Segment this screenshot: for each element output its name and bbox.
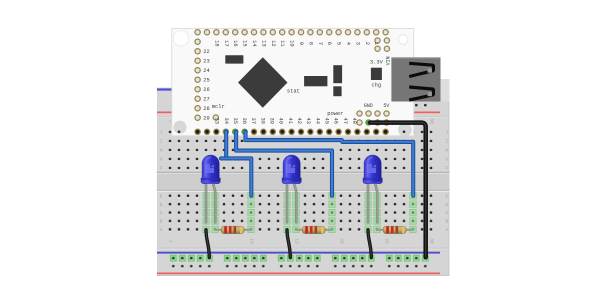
resistor R1 220 ohm body [221,226,244,233]
PCB mounting hole bottom-right [399,123,412,136]
wire W2 pin35 to column 19 [236,132,332,196]
LED2 legs [287,183,296,223]
svg-text:A: A [445,228,448,233]
svg-text:4: 4 [345,42,351,45]
svg-text:36: 36 [241,118,247,124]
svg-text:25: 25 [203,77,209,83]
node LED2 anode col15 highlight [293,193,299,233]
svg-text:F: F [445,167,448,172]
node LED3 anode col24 highlight [374,193,380,233]
svg-text:45: 45 [324,118,330,124]
bottom rail hole row 2 [169,262,430,271]
svg-text:G: G [160,158,163,163]
center channel [157,172,449,192]
svg-text:D: D [160,203,163,208]
PCB silkscreen pin numbers top row [213,40,379,46]
PCB silkscreen pin numbers bottom row [214,118,357,124]
svg-text:10: 10 [289,40,295,46]
svg-text:E: E [160,194,163,199]
PCB mounting hole bottom-left [174,121,186,134]
chg LED component [371,68,382,80]
node LED1 anode col6 highlight [212,193,218,233]
resistor R3 220 ohm body [383,226,406,233]
svg-text:41: 41 [287,118,293,124]
USB connector J1 [391,57,440,101]
svg-text:VIN: VIN [386,56,392,65]
PCB top-right 3.3V pad cluster [374,37,390,52]
svg-text:15: 15 [242,40,248,46]
top rail visible holes [415,104,427,108]
bottom power rail red line [157,273,440,275]
ground jumper wire from LED3 cathode to rail [368,230,371,258]
LED1 legs [206,183,215,223]
wire W3 pin36 to column 28 [246,132,414,196]
node LED3 cathode col23 highlight [365,193,371,233]
svg-text:5: 5 [336,42,342,45]
ground wire from GND pad to bottom rail [370,123,426,258]
LED1 blue 5mm bulb [201,155,220,183]
svg-text:9: 9 [298,42,304,45]
node R3/wire col28 highlight [410,193,416,233]
svg-text:39: 39 [269,118,275,124]
USB connector shadow [441,79,450,102]
svg-text:J: J [160,131,163,136]
LED2 blue 5mm bulb [282,155,301,183]
PCB top pad row pins 18..1 and VIN [194,29,389,36]
svg-text:stat: stat [287,89,300,95]
PCB GND / 5V pad cluster [356,110,390,126]
svg-text:F: F [160,167,163,172]
svg-text:35: 35 [232,118,238,124]
svg-text:46: 46 [333,118,339,124]
svg-text:30: 30 [429,238,435,244]
PCB left pad column pins 22..29 [194,38,219,121]
svg-text:13: 13 [260,40,266,46]
svg-text:J: J [445,131,448,136]
ground jumper wire from LED1 cathode to rail [206,230,209,258]
breadboard column numbers [168,118,435,244]
breadboard row letters [160,131,449,233]
svg-text:15: 15 [294,238,300,244]
svg-text:H: H [445,149,448,154]
microcontroller chip U1 (rotated QFP) [238,57,288,108]
stat LED component [304,76,327,86]
bottom power rail blue line [157,252,440,254]
svg-text:25: 25 [384,238,390,244]
resistor R3 leads [377,229,413,231]
breadboard hole grid bottom block rows E-A [166,192,436,234]
svg-text:B: B [160,220,163,225]
svg-text:5V: 5V [383,103,389,109]
svg-text:C: C [445,211,448,216]
PCB bottom header pins 33..48 (34,35,36 connected green) [194,129,389,136]
svg-text:47: 47 [342,118,348,124]
resistor R1 leads [215,229,251,231]
LED3 legs [368,183,377,223]
svg-text:17: 17 [223,40,229,46]
PCB mounting hole top-left [173,31,188,46]
svg-text:6: 6 [326,42,332,45]
svg-text:power: power [327,111,343,117]
node R1/wire col10 highlight [248,193,254,233]
PCB mounting hole top-right [398,35,408,45]
svg-text:11: 11 [279,40,285,46]
svg-text:E: E [445,194,448,199]
ground jumper wire from LED2 cathode to rail [287,230,290,258]
capacitor C2 [333,86,341,96]
svg-text:40: 40 [278,118,284,124]
svg-text:33: 33 [214,118,220,124]
svg-text:14: 14 [251,40,257,46]
svg-text:30: 30 [429,118,435,124]
svg-text:B: B [445,220,448,225]
node LED1 cathode col5 highlight [203,193,209,233]
top power rail blue line [157,88,440,90]
svg-text:10: 10 [249,238,255,244]
svg-text:8: 8 [307,42,313,45]
microcontroller board PCB [172,28,414,135]
svg-text:C: C [160,211,163,216]
svg-text:I: I [445,140,448,145]
node LED2 cathode col14 highlight [284,193,290,233]
svg-text:37: 37 [250,118,256,124]
svg-text:16: 16 [232,40,238,46]
svg-text:1: 1 [373,42,379,45]
svg-text:I: I [160,140,163,145]
svg-text:38: 38 [259,118,265,124]
resistor R2 leads [296,229,332,231]
svg-text:A: A [160,228,163,233]
svg-text:12: 12 [270,40,276,46]
breadboard hole grid top block rows J-F [166,128,436,173]
svg-text:3.3V: 3.3V [370,60,384,66]
svg-text:mclr: mclr [212,104,225,110]
svg-text:48: 48 [351,118,357,124]
svg-text:chg: chg [371,83,381,89]
svg-text:D: D [445,203,448,208]
svg-text:G: G [445,158,448,163]
node R2/wire col19 highlight [329,193,335,233]
svg-text:7: 7 [317,42,323,45]
svg-text:22: 22 [203,49,209,55]
svg-text:29: 29 [203,115,209,121]
svg-text:28: 28 [203,106,209,112]
reset button [225,55,243,63]
capacitor C1 [333,65,342,83]
resistor R2 220 ohm body [302,226,325,233]
svg-text:GND: GND [364,103,373,109]
USB contact glyph lower [409,87,433,100]
LED3 blue 5mm bulb [363,155,382,183]
USB contact glyph upper [409,63,433,76]
svg-text:26: 26 [203,87,209,93]
svg-text:H: H [160,149,163,154]
svg-text:44: 44 [314,118,320,124]
svg-text:23: 23 [203,58,209,64]
svg-text:2: 2 [364,42,370,45]
top power rail red line [157,112,440,114]
svg-text:43: 43 [305,118,311,124]
svg-text:20: 20 [339,238,345,244]
svg-text:18: 18 [213,40,219,46]
PCB silkscreen pin numbers left column 22..29 [203,49,209,122]
svg-text:27: 27 [203,96,209,102]
svg-text:24: 24 [203,68,209,74]
breadboard [157,87,449,275]
svg-text:3: 3 [354,42,360,45]
bottom rail hole row 1 ground net (green highlighted) [169,254,430,263]
svg-text:1: 1 [168,240,174,243]
svg-text:34: 34 [223,118,229,124]
wire W1 pin34 to column 10 [221,132,251,196]
svg-text:42: 42 [296,118,302,124]
